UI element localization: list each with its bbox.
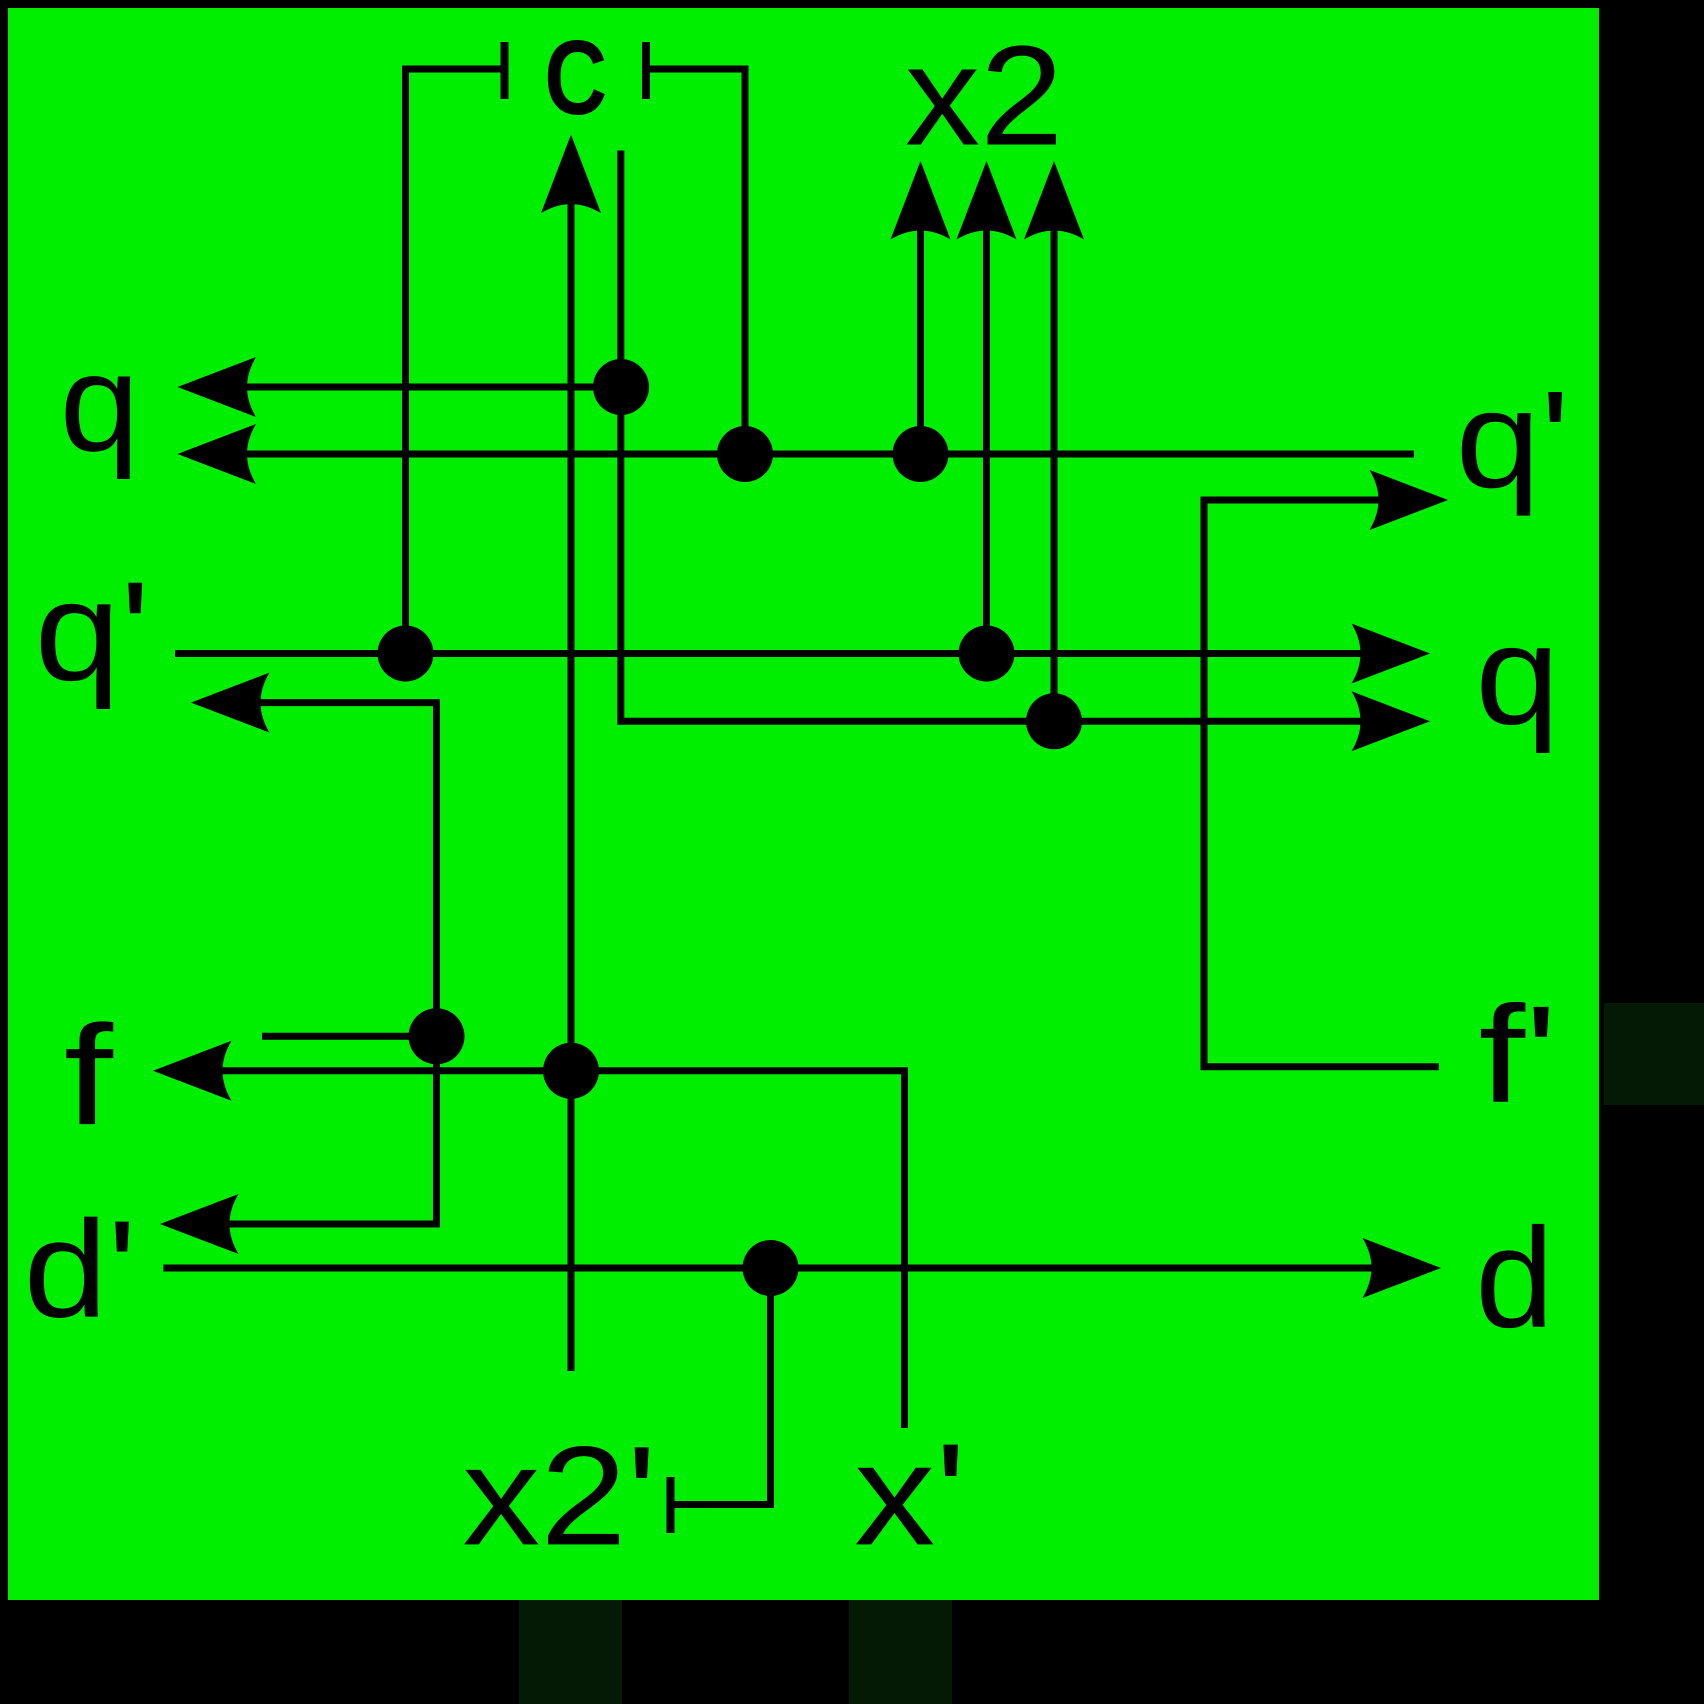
svg-text:x2: x2: [905, 17, 1064, 176]
junction dot q second / x2 arrow1: [893, 426, 949, 482]
wire q second output line: [247, 451, 1414, 458]
arrowhead q right bottom: [1352, 691, 1431, 751]
junction dot q top / x620: [593, 359, 649, 415]
wire q' right bent arrow and f' riser: [1204, 500, 1439, 1067]
svg-text:f: f: [64, 996, 114, 1155]
arrowhead x2 up2: [957, 161, 1017, 240]
svg-text:f': f': [1479, 978, 1558, 1132]
wire f output line: [223, 1071, 905, 1428]
svg-text:d: d: [1475, 1199, 1554, 1358]
dark neighbour patch bottom (x' port): [849, 1600, 952, 1704]
wire q' input line to right q arrow: [175, 650, 1361, 657]
junction dot q' / x405: [378, 626, 434, 682]
wire q top output line: [247, 384, 621, 391]
arrowhead c up: [541, 135, 601, 214]
junction dot q' / x2 arrow2: [959, 626, 1015, 682]
wire x2 up arrow 3: [1051, 231, 1058, 722]
junction dot q second / x745: [717, 426, 773, 482]
svg-text:q': q': [1455, 363, 1569, 517]
arrowhead q right top: [1352, 624, 1431, 684]
arrowhead f: [153, 1041, 232, 1101]
tick x2' bracket: [667, 1477, 675, 1533]
svg-text:x2': x2': [462, 1416, 656, 1574]
wire q' lower arrow with bend down: [230, 703, 437, 1224]
tick C right bracket: [642, 42, 650, 99]
arrowhead q top: [178, 357, 257, 417]
arrowhead d right: [1363, 1238, 1442, 1298]
wire C left bracket to q' junction: [406, 69, 505, 654]
arrowhead q' lower: [191, 673, 270, 733]
junction dot d' line / x2' hook: [743, 1240, 799, 1296]
arrowhead x2 up3: [1024, 161, 1084, 240]
svg-text:q: q: [1475, 596, 1560, 754]
svg-text:d': d': [24, 1193, 137, 1347]
wire x2' hook from dot down to bracket: [671, 1268, 771, 1505]
wire f stub to junction: [262, 1033, 437, 1040]
wire vertical x=620 down and bend right to q output: [621, 151, 1361, 722]
wire d' main line to d output: [163, 1265, 1371, 1272]
tick C left bracket: [501, 42, 509, 99]
junction dot f line / c arrow: [543, 1043, 599, 1099]
arrowhead d' upper: [160, 1194, 239, 1254]
dark neighbour patch bottom-left (x2' port): [519, 1600, 622, 1704]
svg-text:x': x': [854, 1413, 966, 1575]
svg-text:C: C: [544, 19, 607, 137]
wire x2 up arrow 2: [983, 231, 990, 654]
svg-text:q: q: [60, 326, 140, 480]
arrowhead q second: [178, 424, 257, 484]
wire x2 up arrow 1: [917, 231, 924, 455]
arrowhead x2 up1: [891, 161, 951, 240]
wire C right bracket down to q line: [646, 69, 745, 454]
svg-text:q': q': [34, 552, 150, 710]
junction dot q bottom / x2 arrow3: [1026, 693, 1082, 749]
junction dot f stub: [409, 1008, 465, 1064]
arrowhead q' right: [1370, 470, 1449, 530]
wire c up-arrow vertical: [568, 204, 575, 1371]
dark neighbour patch right (f' port): [1604, 1003, 1704, 1105]
